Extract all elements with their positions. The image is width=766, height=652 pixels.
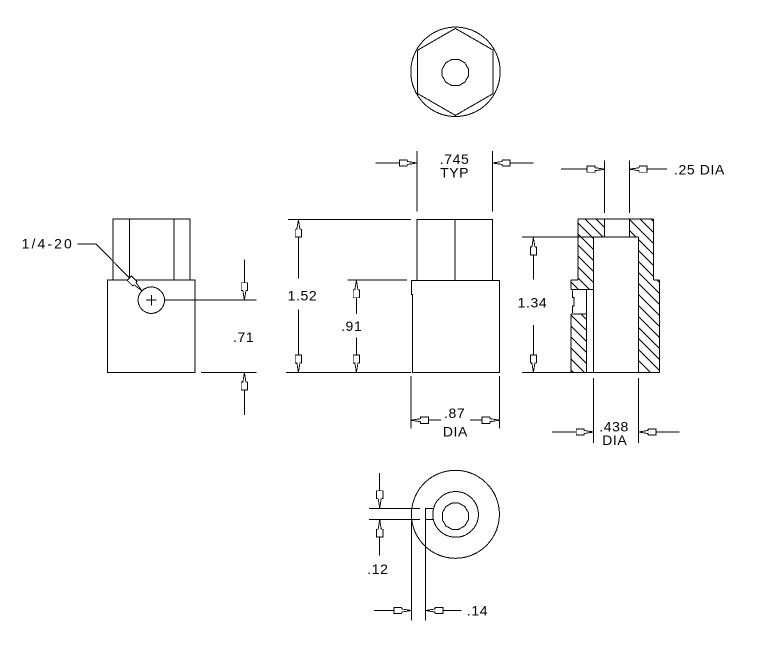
- dimension .91 upper arrowhead: [353, 280, 359, 298]
- front view hex center edge: [454, 219, 456, 280]
- side view set screw hole circle: [138, 287, 164, 313]
- dimension .12 lower arrow line: [379, 537, 381, 556]
- dimension .87 right arrowhead: [482, 417, 500, 423]
- dimension .25 left arrowhead: [587, 166, 605, 172]
- dimension .14 left extension line: [410, 521, 412, 621]
- svg-text:.12: .12: [367, 561, 388, 577]
- section left outer wall and step: [571, 219, 578, 289]
- dimension .14 right arrowhead: [426, 607, 444, 613]
- section left outer wall lower: [570, 314, 572, 373]
- svg-text:TYP: TYP: [440, 164, 469, 180]
- section hatch top slab left: [562, 174, 621, 288]
- dimension .71 upper arrowhead: [241, 283, 247, 301]
- section set screw hole top and bottom edges: [571, 290, 594, 314]
- svg-text:.87: .87: [444, 405, 465, 421]
- bottom view body circle .87 dia: [411, 470, 499, 558]
- dimension .87 arrow tails: [428, 419, 482, 421]
- svg-text:DIA: DIA: [443, 424, 468, 440]
- leader arrowhead: [127, 276, 144, 293]
- top view hex flats: [418, 28, 493, 115]
- dimension 1.52 top extension line: [288, 219, 411, 221]
- svg-text:1.52: 1.52: [288, 288, 318, 304]
- dimension .745 extension lines: [417, 151, 493, 211]
- dimension 1.34 lower arrowhead: [530, 355, 536, 373]
- bottom view .25 hole: [442, 503, 468, 529]
- extension line from body bottom: [201, 372, 257, 374]
- dimension .71 upper arrow line: [243, 259, 245, 282]
- dimension .438 arrow tails: [552, 431, 679, 433]
- side view body outline: [107, 280, 195, 373]
- section hatch upper wall right: [622, 201, 669, 314]
- section bore top edge with 1.34 extension: [522, 236, 638, 238]
- dimension .438 extension lines: [594, 378, 639, 443]
- section right outer wall and step: [654, 219, 660, 372]
- section keyway slot edge: [586, 290, 588, 373]
- section top face: [578, 218, 654, 220]
- dimension 1.34 bottom extension line: [522, 372, 571, 374]
- side view hex boss outline: [113, 219, 190, 280]
- side view hex corner edges: [129, 219, 173, 280]
- dimension .25 right arrowhead: [630, 166, 648, 172]
- top view .25 dia hole: [442, 59, 468, 85]
- dimension .745 left arrowhead: [399, 160, 417, 166]
- dimension .91 lower arrow line: [355, 338, 357, 356]
- svg-text:.71: .71: [233, 329, 254, 345]
- dimension .12 upper arrow line: [379, 473, 381, 491]
- section hatch lower wall right: [622, 234, 675, 419]
- dimension .14 left arrowhead: [394, 607, 412, 613]
- dimension 1.52 upper arrowhead: [295, 220, 301, 238]
- dimension 1.52 lower arrowhead: [295, 355, 301, 373]
- dimension .87 extension lines: [411, 376, 500, 429]
- bottom view bore circle .438 dia: [433, 492, 479, 538]
- section hatch lower wall left: [555, 277, 603, 413]
- bottom view keyway tab: [425, 508, 433, 519]
- dimension .12 extension lines: [369, 508, 420, 519]
- dimension 1.52 bottom extension line: [286, 372, 411, 374]
- svg-text:.91: .91: [341, 318, 362, 334]
- dimension .12 upper arrowhead: [377, 491, 383, 509]
- dimension .25 extension lines: [605, 161, 630, 213]
- dimension .14 right extension line: [425, 508, 427, 620]
- dimension .438 left arrowhead: [576, 429, 594, 435]
- front view hex boss outline: [417, 219, 492, 280]
- dimension 1.52 upper arrow line: [297, 237, 299, 278]
- section bore walls .438 dia: [594, 237, 639, 373]
- section hatch top slab right: [614, 171, 670, 282]
- dimension .87 left arrowhead: [411, 417, 429, 423]
- section bottom face: [571, 372, 660, 374]
- dimension .745 arrow tails: [376, 162, 534, 164]
- dimension .71 lower arrowhead: [241, 373, 247, 391]
- svg-text:1.34: 1.34: [518, 295, 548, 311]
- dimension .91 extension line: [348, 279, 407, 281]
- dimension .745 right arrowhead: [493, 160, 511, 166]
- dimension 1.34 upper arrowhead: [530, 237, 536, 255]
- side view set screw hole crosshair: [146, 295, 157, 306]
- dimension .14 arrow tails: [374, 610, 462, 612]
- dimension 1.34 lower arrow line: [532, 325, 534, 355]
- dimension .91 lower arrowhead: [353, 355, 359, 373]
- dimension .438 right arrowhead: [639, 429, 657, 435]
- svg-text:.14: .14: [467, 603, 488, 619]
- svg-text:DIA: DIA: [602, 432, 627, 448]
- svg-text:1/4-20: 1/4-20: [22, 236, 74, 252]
- section set screw thread zigzag: [572, 291, 573, 313]
- dimension 1.52 lower arrow line: [297, 310, 299, 356]
- dimension .12 lower arrowhead: [377, 520, 383, 538]
- dimension .25 arrow tails: [561, 168, 667, 170]
- top view body circle .87 dia: [411, 27, 500, 116]
- dimension 1.34 upper arrow line: [532, 255, 534, 279]
- dimension .91 upper arrow line: [355, 298, 357, 314]
- dimension .71 lower arrow line: [243, 390, 245, 415]
- section hatch upper wall left: [562, 196, 610, 321]
- front view body outline with keyway flat jog: [411, 280, 499, 372]
- leader line of 1/4-20 callout: [78, 244, 142, 290]
- section .25 hole walls: [605, 219, 630, 237]
- svg-text:.25 DIA: .25 DIA: [674, 162, 725, 178]
- extension line from screw center: [165, 299, 257, 301]
- section hatch step band left: [555, 233, 610, 332]
